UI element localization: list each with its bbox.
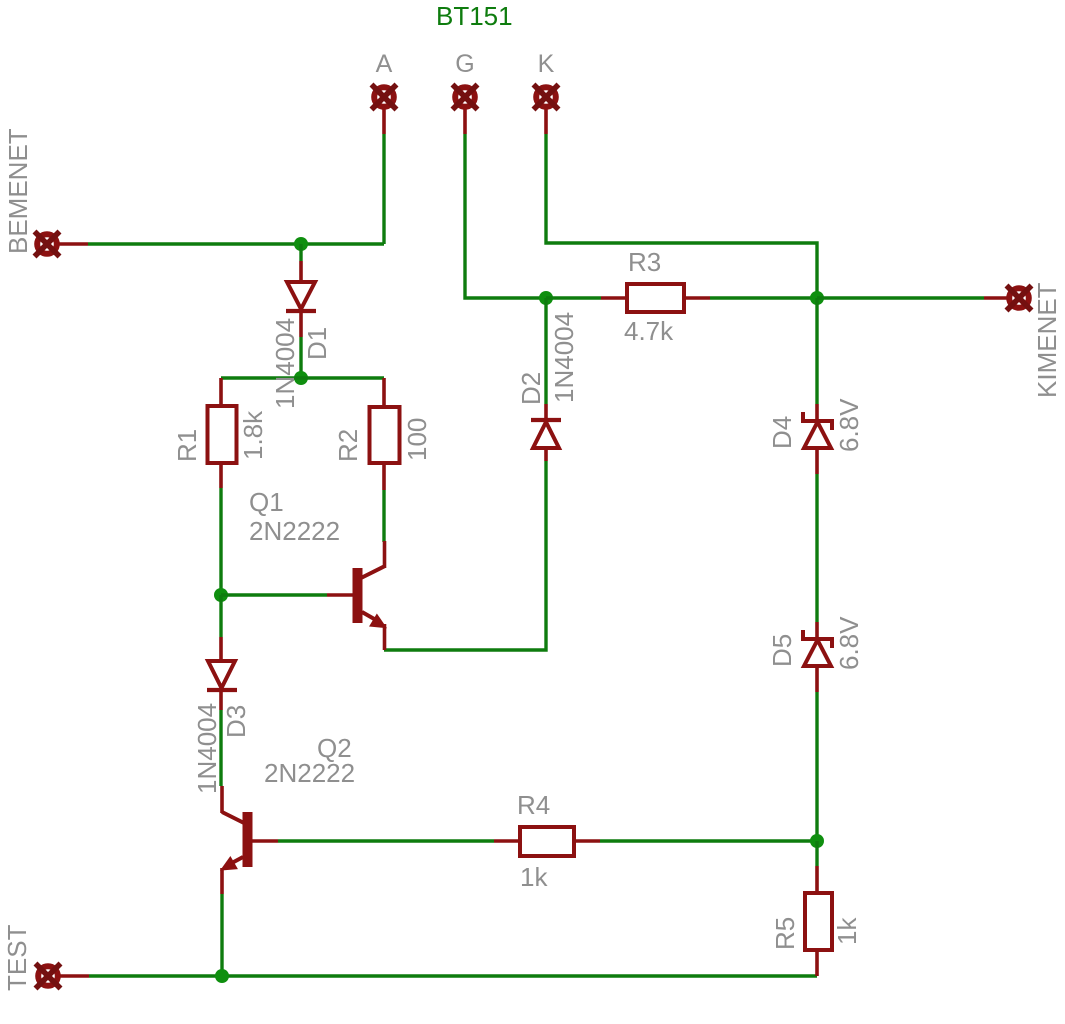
wire Q2 emitter down xyxy=(220,894,223,976)
wire D2 top xyxy=(544,298,547,404)
wire TEST bottom rail xyxy=(89,974,817,977)
wire D1 bottom xyxy=(299,337,302,378)
pin of terminal A xyxy=(382,108,386,134)
pin of terminal BEMENET xyxy=(58,242,88,246)
wire from terminal G down to gate node xyxy=(465,134,544,298)
svg-text:R5: R5 xyxy=(770,917,800,950)
zener diode D4 xyxy=(803,404,832,474)
svg-text:1k: 1k xyxy=(832,917,862,945)
svg-text:1.8k: 1.8k xyxy=(238,410,268,460)
wire node to R5 top xyxy=(815,841,818,866)
svg-text:R2: R2 xyxy=(333,429,363,462)
wire R3 to output node xyxy=(710,296,817,299)
terminal A xyxy=(372,85,397,135)
svg-text:BEMENET: BEMENET xyxy=(3,128,33,254)
wire D3 bottom to Q2 collector xyxy=(219,710,222,786)
wire R1 bottom to base node xyxy=(219,488,222,595)
wire BEMENET rail xyxy=(88,242,384,245)
wire R4 to lower right node xyxy=(600,839,817,842)
junction node TEST rail / Q2 emitter xyxy=(215,969,229,983)
wire D5 to lower node xyxy=(815,692,818,841)
wire from terminal K down and across xyxy=(546,134,817,298)
junction node gate (D2/R3) xyxy=(539,291,553,305)
transistor Q2 (npn 2N2222, mirrored) xyxy=(222,786,278,894)
junction node R4/D5/R5 xyxy=(810,834,824,848)
wire Q1 emitter to D2 bottom xyxy=(384,461,546,650)
svg-text:2N2222: 2N2222 xyxy=(264,758,355,788)
wire R2 bottom to Q1 collector xyxy=(382,490,385,542)
svg-text:D5: D5 xyxy=(767,634,797,667)
diode D2 xyxy=(531,404,561,461)
junction node R1/R2 rail xyxy=(294,371,308,385)
svg-text:BT151: BT151 xyxy=(436,1,513,31)
svg-text:R3: R3 xyxy=(628,247,661,277)
wire Q2 base to R4 xyxy=(278,839,494,842)
pin of terminal TEST xyxy=(59,974,89,978)
wire base node down to D3 xyxy=(219,595,222,637)
pin of terminal K xyxy=(544,108,548,134)
svg-text:6.8V: 6.8V xyxy=(834,616,864,670)
svg-text:2N2222: 2N2222 xyxy=(249,516,340,546)
resistor R5 xyxy=(805,866,832,976)
resistor R1 xyxy=(208,378,237,488)
svg-text:D3: D3 xyxy=(221,705,251,738)
terminal KIMENET xyxy=(984,286,1032,311)
svg-text:A: A xyxy=(376,50,393,78)
diode D1 xyxy=(286,261,316,337)
terminal K xyxy=(534,85,559,135)
junction node Q1 base xyxy=(214,588,228,602)
svg-text:1N4004: 1N4004 xyxy=(549,312,579,403)
svg-text:Q1: Q1 xyxy=(249,487,284,517)
svg-text:100: 100 xyxy=(402,418,432,461)
diode D3 xyxy=(207,637,237,710)
svg-text:D4: D4 xyxy=(767,416,797,449)
zener diode D5 xyxy=(803,622,832,692)
wire D4 to D5 xyxy=(815,474,818,622)
terminal BEMENET xyxy=(35,232,89,257)
resistor R4 xyxy=(494,827,600,856)
junction node output (K/R3/D4/KIMENET) xyxy=(810,291,824,305)
terminal G xyxy=(453,85,478,135)
svg-text:KIMENET: KIMENET xyxy=(1032,282,1062,398)
wire base node to Q1 base xyxy=(221,593,327,596)
terminal TEST xyxy=(36,964,90,989)
svg-text:G: G xyxy=(455,50,474,78)
svg-text:TEST: TEST xyxy=(2,924,32,991)
junction node at BEMENET rail / D1 xyxy=(294,237,308,251)
svg-text:4.7k: 4.7k xyxy=(624,316,674,346)
svg-text:R4: R4 xyxy=(517,790,550,820)
svg-text:K: K xyxy=(538,50,555,78)
svg-text:1k: 1k xyxy=(520,862,548,892)
wire gate node to R3 xyxy=(546,296,601,299)
wire D1 top xyxy=(299,244,302,261)
pin of terminal G xyxy=(463,108,467,134)
svg-text:R1: R1 xyxy=(172,429,202,462)
wire R1-R2 rail xyxy=(221,376,384,379)
wire output node to KIMENET xyxy=(817,296,984,299)
resistor R2 xyxy=(370,378,400,490)
pin of terminal KIMENET xyxy=(984,296,1008,300)
wire output node down to D4 xyxy=(815,298,818,404)
wire from terminal A down xyxy=(382,134,385,244)
svg-text:D2: D2 xyxy=(516,372,546,405)
transistor Q1 (npn 2N2222) xyxy=(327,541,385,650)
svg-text:6.8V: 6.8V xyxy=(834,398,864,452)
resistor R3 xyxy=(601,284,710,312)
svg-text:1N4004: 1N4004 xyxy=(270,318,300,409)
svg-text:D1: D1 xyxy=(302,327,332,360)
svg-text:1N4004: 1N4004 xyxy=(192,703,222,794)
